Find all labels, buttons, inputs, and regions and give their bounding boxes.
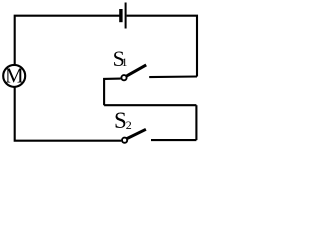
switch S1 pivot circle [121, 75, 126, 80]
battery: thick short negative plate [119, 9, 122, 22]
wire: battery to top-right corner, down right side to S1 branch [127, 16, 197, 77]
wire: S1 right fixed contact wire [149, 75, 197, 78]
switch S2 blade (open) [126, 129, 146, 139]
svg-text:M: M [5, 63, 24, 87]
switch S2 pivot circle [122, 138, 127, 143]
motor M: circle [3, 65, 25, 87]
wire: bottom horizontal from S2 pivot to bottom-left corner, up to motor bottom [15, 87, 122, 141]
svg-text:2: 2 [126, 118, 132, 132]
battery: thin long positive plate [125, 3, 127, 29]
wire: left vertical (motor top to top-left corner) and top horizontal to battery [15, 16, 120, 65]
wire: middle horizontal [104, 104, 196, 106]
wire: S1 pivot to left corner, down to middle wire [104, 79, 121, 106]
wire: S2 right fixed contact wire [151, 139, 196, 141]
wire: lower right vertical [195, 105, 197, 140]
switch S1 blade (open) [126, 65, 146, 77]
svg-text:1: 1 [122, 55, 128, 69]
